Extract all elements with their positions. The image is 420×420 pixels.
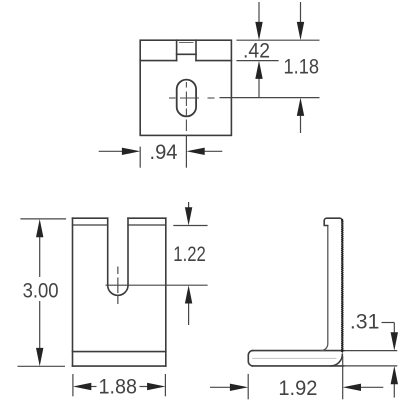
svg-text:.94: .94	[150, 141, 178, 164]
dim 3.00 top extension line	[20, 218, 66, 220]
arrowhead 1.22 bottom pointing up	[185, 285, 192, 303]
arrowhead 1.92 left pointing right	[230, 384, 248, 391]
front view slot bottom semicircle	[108, 285, 128, 295]
extension line bend line right	[236, 60, 278, 62]
dim .94 left shaft	[99, 150, 123, 152]
arrowhead 1.18 bottom pointing up	[297, 98, 304, 116]
front view base top line	[73, 351, 166, 353]
front view slot left vertical	[107, 218, 109, 285]
side view leg bottom line with right extension	[252, 365, 344, 367]
top view slot obround	[177, 80, 196, 117]
top view notch inner top edge	[180, 42, 194, 44]
svg-text:1.92: 1.92	[278, 377, 317, 400]
arrowhead 1.22 top pointing down	[185, 207, 192, 225]
front view bottom edge	[73, 365, 166, 367]
front view slot right vertical	[127, 218, 129, 285]
side view leg top line with right extension	[252, 350, 344, 352]
top view notch right vertical	[195, 40, 197, 60]
dim 1.88 right extension line	[164, 374, 166, 396]
dim 3.00 upper shaft	[39, 237, 41, 278]
arrowhead 1.88 right pointing right	[147, 383, 165, 390]
dim .42 upper shaft	[258, 2, 260, 23]
dim 1.22 slot center extension line	[106, 284, 208, 286]
dim .94 right extension line (slot centerline)	[185, 135, 187, 168]
dim 3.00 bottom extension line	[18, 365, 66, 367]
front view left edge	[72, 218, 74, 366]
front view top edge right of slot	[128, 217, 166, 219]
side view flange top hook	[324, 218, 342, 225]
dim 1.92 left shaft	[210, 386, 231, 388]
dim .94 left extension line	[139, 147, 141, 168]
arrowhead 3.00 bottom pointing down	[36, 348, 43, 366]
dim .31 upper shaft	[393, 323, 395, 334]
arrowhead 3.00 top pointing up	[36, 219, 43, 237]
arrowhead .94 left pointing right	[122, 148, 140, 155]
dim 1.92 left extension line	[247, 374, 249, 399]
arrowhead 1.88 left pointing left	[73, 383, 91, 390]
side view flange left edge with inner fillet	[321, 226, 328, 351]
dim .31 leader horizontal	[382, 322, 395, 324]
dim .31 lower shaft	[393, 384, 395, 398]
top view outer rectangle	[140, 40, 231, 135]
dim 3.00 lower shaft	[39, 301, 41, 349]
side view leg rounded left end	[248, 351, 253, 366]
dim 1.88 left extension line	[72, 374, 74, 396]
top view slot vertical centerline dashes	[185, 82, 187, 88]
dim .42 lower shaft	[258, 78, 260, 98]
dim .94 right shaft	[204, 150, 223, 152]
svg-text:3.00: 3.00	[23, 280, 59, 303]
side view outer bend arc bottom right	[331, 354, 343, 366]
arrowhead .31 lower pointing up	[391, 366, 398, 384]
dim 1.92 right shaft	[360, 386, 383, 388]
front view slot vertical centerline dashes	[117, 267, 119, 275]
dim .31 bottom extension line	[344, 365, 397, 367]
svg-text:1.88: 1.88	[99, 376, 138, 399]
dim 1.18 lower shaft	[300, 115, 302, 133]
arrowhead .94 right pointing left	[186, 148, 204, 155]
top view slot bottom edge in notch	[177, 53, 196, 55]
svg-text:.31: .31	[350, 311, 380, 334]
side view leg faint mid tangent line	[253, 357, 337, 359]
front view top edge left of slot	[73, 217, 108, 219]
front view bend tangent line left of slot	[73, 224, 108, 226]
arrowhead .42 top pointing down	[255, 22, 262, 40]
front view right edge	[165, 218, 167, 366]
svg-text:1.18: 1.18	[284, 56, 320, 79]
front view bend tangent line right of slot	[128, 224, 166, 226]
dim 1.88 line left segment	[91, 386, 97, 388]
extension line slot center right	[220, 97, 320, 99]
top view bend line right segment	[196, 60, 231, 62]
arrowhead .31 upper pointing down	[391, 332, 398, 350]
arrowhead 1.18 top pointing down	[297, 22, 304, 40]
dim 1.92 right extension line	[342, 356, 344, 399]
dim 1.18 upper shaft	[300, 2, 302, 23]
side view serrated right edge	[342, 219, 343, 352]
svg-text:1.22: 1.22	[173, 243, 206, 266]
top view bend line left segment	[140, 60, 176, 62]
extension line top edge right	[236, 39, 319, 41]
top view slot horizontal centerline dashes	[169, 97, 176, 99]
top view notch left vertical	[176, 40, 178, 60]
arrowhead .42 bottom pointing up	[255, 61, 262, 79]
dim 1.88 line right segment	[140, 386, 149, 388]
dim 1.22 lower shaft	[188, 303, 190, 325]
svg-text:.42: .42	[243, 40, 270, 63]
dim .31 top extension line	[344, 350, 397, 352]
dim 1.22 upper extension line	[173, 225, 207, 227]
dim 1.22 upper shaft	[188, 202, 190, 208]
arrowhead 1.92 right pointing left	[343, 384, 361, 391]
